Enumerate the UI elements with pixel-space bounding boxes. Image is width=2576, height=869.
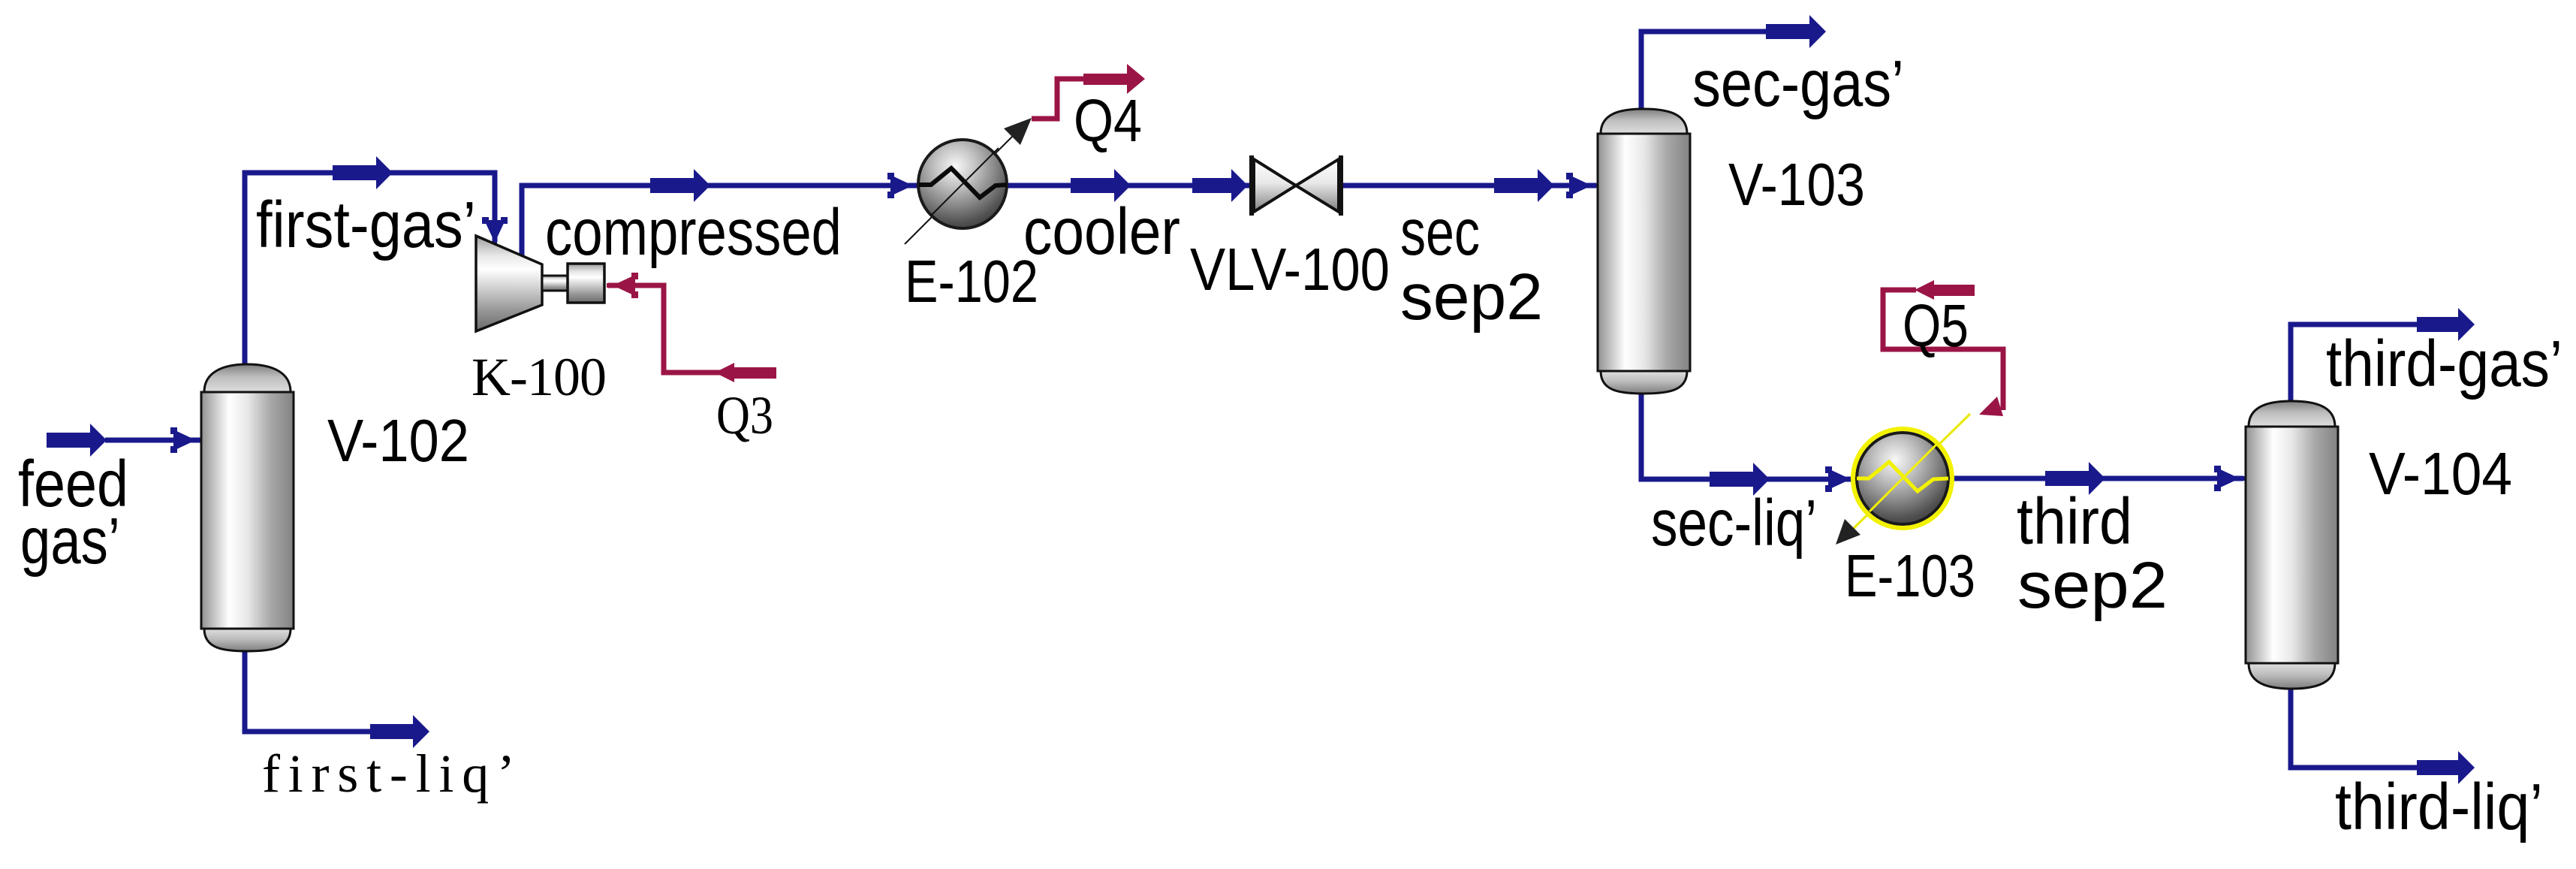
svg-text:V-103: V-103 (1728, 151, 1865, 218)
svg-text:sec-liq’: sec-liq’ (1651, 487, 1817, 560)
svg-text:E-103: E-103 (1845, 542, 1975, 609)
svg-text:V-104: V-104 (2369, 440, 2512, 507)
svg-text:cooler: cooler (1023, 195, 1180, 268)
svg-text:Q4: Q4 (1074, 87, 1142, 154)
svg-text:third-liq’: third-liq’ (2335, 771, 2543, 843)
svg-text:sec-gas’: sec-gas’ (1692, 47, 1904, 120)
svg-text:sec: sec (1400, 196, 1480, 269)
svg-text:sep2: sep2 (2017, 549, 2168, 622)
svg-text:third: third (2017, 485, 2132, 558)
svg-text:V-102: V-102 (327, 407, 469, 474)
svg-text:Q3: Q3 (716, 385, 773, 445)
svg-text:K-100: K-100 (472, 347, 607, 407)
svg-text:sep2: sep2 (1400, 261, 1543, 333)
svg-text:first-gas’: first-gas’ (256, 189, 476, 261)
svg-text:first-liq’: first-liq’ (262, 744, 515, 804)
svg-text:VLV-100: VLV-100 (1190, 236, 1390, 303)
svg-text:compressed: compressed (545, 196, 842, 269)
svg-text:E-102: E-102 (905, 248, 1038, 315)
svg-text:gas’: gas’ (20, 505, 120, 578)
svg-text:Q5: Q5 (1903, 292, 1969, 359)
svg-text:third-gas’: third-gas’ (2326, 327, 2562, 400)
